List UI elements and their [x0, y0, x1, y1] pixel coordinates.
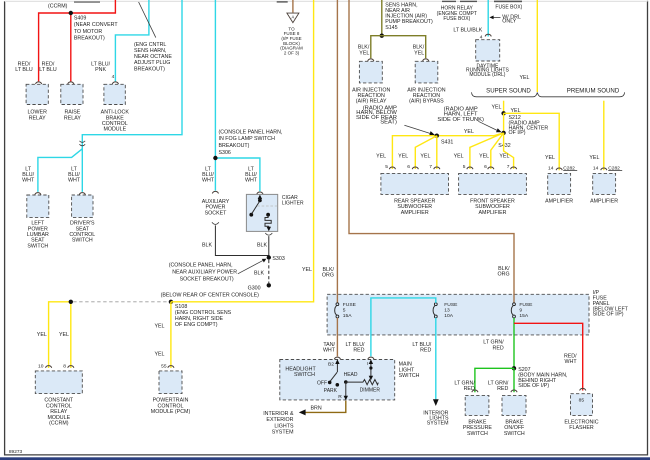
- svg-text:WHT: WHT: [68, 178, 81, 184]
- svg-text:BLK: BLK: [202, 243, 212, 249]
- svg-text:MODULE (PCM): MODULE (PCM): [151, 409, 191, 415]
- svg-text:(CONSOLE PANEL HARN,: (CONSOLE PANEL HARN,: [219, 129, 283, 135]
- svg-text:YEL: YEL: [420, 154, 430, 160]
- node S207: [512, 366, 516, 370]
- leader arrow to S303: [238, 260, 264, 274]
- contact HEAD: [344, 380, 348, 384]
- node S409: [69, 11, 73, 15]
- svg-text:7: 7: [429, 164, 432, 170]
- wire blk cigar to S303: [268, 236, 270, 255]
- ground G300: [267, 283, 271, 287]
- svg-text:SUPER SOUND: SUPER SOUND: [486, 87, 531, 94]
- svg-text:ADJUST PLUG: ADJUST PLUG: [134, 60, 170, 66]
- switch BRAKE PRESSURE SWITCH: [465, 395, 489, 415]
- wire olive branches to AIR relay and bypass: [371, 36, 426, 59]
- wire yellow S108 to PCM: [170, 302, 172, 368]
- pin connector lower relay: [36, 82, 42, 84]
- svg-text:YEL: YEL: [37, 332, 47, 338]
- svg-text:AMPLIFIER: AMPLIFIER: [479, 210, 507, 216]
- leader arrow to S432: [478, 121, 498, 131]
- svg-text:SYSTEM: SYSTEM: [427, 420, 449, 426]
- svg-text:SIDE OF I/P): SIDE OF I/P): [593, 312, 624, 318]
- wire tan to fuse 8 reference: [292, 0, 294, 13]
- svg-text:2 OF 3): 2 OF 3): [284, 50, 300, 55]
- svg-text:(CONSOLE PANEL HARN,: (CONSOLE PANEL HARN,: [169, 263, 233, 269]
- svg-text:5: 5: [343, 307, 346, 313]
- wire green fuse 9 output: [513, 318, 515, 369]
- pin connector amp1: [556, 168, 562, 170]
- wire cyan headlight I to fuse 13: [371, 298, 436, 357]
- svg-text:5: 5: [463, 164, 466, 170]
- node yellow splice: [69, 300, 73, 304]
- pin connector PCM: [168, 366, 174, 368]
- svg-text:RED: RED: [497, 386, 508, 392]
- svg-text:S303: S303: [272, 256, 284, 262]
- svg-text:SWITCH: SWITCH: [72, 238, 93, 244]
- svg-text:MODULE: MODULE: [103, 127, 126, 133]
- svg-text:YEL: YEL: [499, 154, 509, 160]
- switch S1 LEFT POWER LUMBAR SEAT SWITCH: [27, 195, 49, 217]
- bottom navy strip: [0, 457, 650, 460]
- wire yellow CCRM pin10 branch: [49, 302, 71, 368]
- svg-text:LIGHTER: LIGHTER: [282, 201, 304, 207]
- svg-text:TO MOTOR: TO MOTOR: [74, 29, 103, 35]
- relay AIR INJECTION REACTION RELAY: [359, 61, 382, 83]
- svg-text:NEAR OCTANE: NEAR OCTANE: [134, 54, 172, 60]
- pin connector air relay: [368, 59, 374, 61]
- svg-text:YEL: YEL: [464, 129, 474, 135]
- relay K1 LOWER RELAY: [26, 84, 48, 104]
- svg-text:SWITCH: SWITCH: [294, 372, 315, 378]
- svg-text:5: 5: [385, 164, 388, 170]
- switch HEADLIGHT SWITCH: [280, 360, 395, 400]
- svg-text:WHT: WHT: [22, 178, 35, 184]
- fuse F13 10A: [434, 303, 437, 306]
- svg-text:LT BLU: LT BLU: [39, 67, 57, 73]
- svg-text:YEL: YEL: [479, 154, 489, 160]
- fuse F9 15A: [513, 303, 516, 306]
- svg-text:PARK: PARK: [324, 388, 338, 394]
- leader arrow to S431: [404, 125, 431, 134]
- svg-text:ORG: ORG: [498, 272, 510, 278]
- wire red fuse 9 to flasher: [514, 323, 583, 390]
- headlight I arrow: [370, 364, 372, 377]
- svg-text:(AIR) BYPASS: (AIR) BYPASS: [409, 99, 444, 105]
- pin connector DRL: [485, 34, 491, 36]
- wire hop symbol: [79, 141, 85, 143]
- svg-text:LIGHTS: LIGHTS: [274, 423, 294, 429]
- wire cyan branch to lumbar switch: [38, 149, 82, 192]
- svg-text:SIDE OF I/P): SIDE OF I/P): [518, 383, 549, 389]
- pin connector headlight I: [368, 357, 374, 359]
- wire green S207 to brake on/off switch: [513, 368, 515, 392]
- svg-text:YEL: YEL: [302, 267, 312, 273]
- node S431: [435, 134, 439, 138]
- pin connector amp2: [601, 168, 607, 170]
- svg-text:AMPLIFIER: AMPLIFIER: [545, 198, 573, 204]
- svg-text:NEAR AUXILIARY POWER: NEAR AUXILIARY POWER: [172, 270, 237, 276]
- pin connector driver seat switch: [79, 193, 85, 195]
- svg-text:YEL: YEL: [398, 154, 408, 160]
- arrow to interior exterior lights: [299, 409, 306, 415]
- svg-text:(AIR) RELAY: (AIR) RELAY: [356, 99, 387, 105]
- svg-text:15A: 15A: [519, 313, 528, 319]
- svg-text:EXTERIOR: EXTERIOR: [266, 417, 293, 423]
- wire yellow S212 to amplifier 1: [504, 113, 560, 170]
- svg-text:SYSTEM: SYSTEM: [272, 430, 294, 436]
- svg-text:S432: S432: [498, 143, 510, 149]
- wire cyan fuse 13 to interior lights: [435, 318, 437, 400]
- svg-text:(ENG CNTRL: (ENG CNTRL: [134, 42, 166, 48]
- svg-text:SIDE OF TRUNK): SIDE OF TRUNK): [437, 117, 484, 123]
- arrow to interior lights system: [433, 399, 439, 406]
- svg-text:SWITCH: SWITCH: [399, 373, 420, 379]
- svg-text:S145: S145: [385, 25, 397, 31]
- relay K2 RAISE RELAY: [61, 84, 83, 104]
- svg-text:(BELOW REAR OF CENTER CONSOLE): (BELOW REAR OF CENTER CONSOLE): [161, 292, 260, 298]
- pin connector brake on/off: [511, 390, 517, 392]
- node S303: [267, 255, 271, 259]
- svg-text:RED: RED: [493, 345, 504, 351]
- svg-text:RED: RED: [464, 386, 475, 392]
- wire blk dashed S303 to G300: [268, 260, 270, 283]
- amplifier super sound AMPLIFIER: [548, 173, 571, 194]
- wire yellow rear amp pin 7: [436, 136, 438, 169]
- svg-text:I: I: [367, 361, 368, 367]
- cigar lighter inner dashed line: [257, 205, 277, 207]
- svg-text:IN FOG LAMP SWITCH: IN FOG LAMP SWITCH: [219, 136, 276, 142]
- solenoid AIR INJECTION REACTION BYPASS: [415, 61, 438, 83]
- cigar lighter input arrow: [258, 195, 262, 199]
- svg-text:FUSE: FUSE: [444, 302, 458, 308]
- wire yellow audio feed from top: [536, 0, 538, 92]
- svg-text:9: 9: [519, 307, 522, 313]
- wire yellow front amp pin 6: [491, 133, 504, 169]
- wire tan fuse 5 to headlight B2: [336, 318, 338, 357]
- svg-text:10: 10: [38, 363, 44, 369]
- svg-text:89273: 89273: [9, 449, 23, 455]
- svg-text:BREAKOUT): BREAKOUT): [134, 66, 165, 72]
- pin connector lumbar switch: [35, 193, 41, 195]
- svg-text:LT BLU/BLK: LT BLU/BLK: [453, 28, 482, 34]
- wire red S409 to raise relay: [70, 13, 72, 81]
- svg-text:BREAKOUT): BREAKOUT): [219, 143, 250, 149]
- headlight B2 arrow: [336, 364, 338, 373]
- svg-text:WHT: WHT: [323, 348, 336, 354]
- module U1 ANTI-LOCK BRAKE CONTROL MODULE: [104, 84, 125, 104]
- pin connector electronic flasher: [580, 388, 586, 390]
- module CCRM CONSTANT CONTROL RELAY MODULE: [35, 371, 82, 394]
- svg-text:B2: B2: [328, 361, 334, 367]
- svg-text:OF I/P): OF I/P): [509, 130, 526, 136]
- pin connector anti-lock module: [112, 82, 118, 84]
- svg-text:15A: 15A: [343, 313, 352, 319]
- fuse F5 15A: [336, 303, 339, 306]
- amplifier premium sound AMPLIFIER: [593, 173, 616, 194]
- svg-text:FUSE BOX): FUSE BOX): [443, 16, 470, 22]
- amplifier REAR SPEAKER SUBWOOFER: [381, 173, 449, 194]
- node S212: [501, 111, 505, 115]
- svg-text:G300: G300: [248, 286, 261, 292]
- svg-text:SENS HARN,: SENS HARN,: [134, 48, 166, 54]
- wire yellow premium stub to amp2: [603, 101, 605, 171]
- svg-text:FUSE BOX): FUSE BOX): [495, 4, 522, 10]
- svg-text:YEL: YEL: [511, 108, 521, 114]
- svg-text:PNK: PNK: [95, 67, 106, 73]
- svg-text:6: 6: [484, 164, 487, 170]
- node S432: [501, 131, 505, 135]
- pin connector brake pressure: [472, 390, 478, 392]
- svg-text:55: 55: [161, 363, 167, 369]
- wire green S207 to brake pressure switch: [475, 368, 514, 392]
- svg-text:S306: S306: [219, 150, 231, 156]
- pin connectors rear amp: [389, 167, 395, 169]
- wire olive S145 feed: [381, 0, 383, 36]
- component CIGAR LIGHTER: [246, 194, 277, 231]
- module PCM POWERTRAIN CONTROL MODULE: [159, 371, 182, 394]
- svg-text:YEL: YEL: [59, 332, 69, 338]
- svg-text:ONLY: ONLY: [502, 19, 516, 25]
- svg-text:OF ENG COMPT): OF ENG COMPT): [175, 322, 218, 328]
- wire yellow rear amp pin 6: [415, 136, 437, 169]
- wire blk aux socket to S303: [215, 225, 268, 255]
- contact PARK: [336, 383, 340, 387]
- node S145: [380, 34, 384, 38]
- svg-text:YEL: YEL: [545, 155, 555, 161]
- wire yellow front amp pin 7: [504, 133, 514, 169]
- wire yellow bus from top to S108: [171, 0, 314, 302]
- svg-text:SOCKET: SOCKET: [205, 210, 228, 216]
- pin connectors front amp: [467, 167, 473, 169]
- system brace: [472, 92, 625, 97]
- svg-text:8: 8: [63, 363, 66, 369]
- svg-text:AMPLIFIER: AMPLIFIER: [401, 210, 429, 216]
- svg-text:MODULE (DRL): MODULE (DRL): [469, 72, 505, 78]
- pin connector CCRM 8: [68, 366, 74, 368]
- fuse panel I/P FUSE PANEL: [327, 294, 589, 335]
- cigar lighter output arrow: [268, 226, 270, 228]
- headlight lever B2-OFF: [330, 372, 337, 381]
- svg-text:14: 14: [593, 165, 599, 171]
- dimmer rheostat: [346, 380, 379, 385]
- svg-text:SWITCH: SWITCH: [467, 431, 488, 437]
- flasher ELECTRONIC FLASHER: [571, 394, 593, 416]
- note W/ DRL ONLY: [492, 16, 500, 18]
- svg-text:(CCRM): (CCRM): [49, 421, 69, 427]
- svg-text:85: 85: [579, 397, 585, 403]
- socket cup symbol: [212, 222, 219, 224]
- wire cyan from top to anti-lock module: [115, 0, 148, 81]
- svg-text:7: 7: [507, 164, 510, 170]
- svg-text:SWITCH: SWITCH: [27, 243, 48, 249]
- svg-text:YEL: YEL: [359, 50, 369, 56]
- svg-text:WHT: WHT: [245, 178, 258, 184]
- svg-text:YEL: YEL: [154, 323, 164, 329]
- pin connector air bypass: [423, 59, 429, 61]
- pin connector CCRM 10: [46, 366, 52, 368]
- svg-text:BREAKOUT): BREAKOUT): [74, 36, 105, 42]
- svg-text:WHT: WHT: [202, 178, 215, 184]
- svg-text:ORG: ORG: [322, 273, 334, 279]
- svg-text:13: 13: [444, 307, 450, 313]
- svg-text:RED: RED: [353, 348, 364, 354]
- svg-text:FLASHER: FLASHER: [569, 425, 594, 431]
- node S108: [169, 300, 173, 304]
- svg-text:S431: S431: [441, 140, 453, 146]
- pin connector cigar lighter top: [257, 192, 263, 194]
- svg-text:DIMMER: DIMMER: [360, 387, 381, 393]
- wire cyan branch to cigar lighter: [215, 158, 260, 191]
- svg-text:PREMIUM SOUND: PREMIUM SOUND: [567, 87, 620, 94]
- svg-text:FUSE: FUSE: [343, 302, 357, 308]
- amplifier FRONT SPEAKER SUBWOOFER: [459, 173, 527, 194]
- off-page triangle TO FUSE 8: [287, 13, 299, 23]
- svg-text:BLK: BLK: [254, 271, 264, 277]
- wire yellow front amp pin 5: [470, 133, 504, 169]
- switch BRAKE ON/OFF SWITCH: [502, 395, 526, 415]
- svg-text:LT BLU: LT BLU: [15, 67, 33, 73]
- svg-text:BRN: BRN: [311, 405, 322, 411]
- wire yellow rear amp bus: [392, 133, 503, 169]
- svg-text:(CCRM): (CCRM): [48, 3, 68, 9]
- pin connector headlight B2: [334, 357, 340, 359]
- svg-text:HEAD: HEAD: [344, 372, 358, 378]
- pin connector raise relay: [68, 82, 74, 84]
- svg-text:SOCKET BREAKOUT): SOCKET BREAKOUT): [180, 277, 234, 283]
- svg-text:INTERIOR &: INTERIOR &: [263, 411, 294, 417]
- svg-text:S409: S409: [74, 16, 86, 22]
- wire cyan console feed to aux socket: [214, 0, 216, 191]
- module DRL DAYTIME RUNNING LIGHTS: [476, 40, 500, 61]
- cut text marks top edge: [74, 1, 100, 3]
- svg-text:YEL: YEL: [454, 154, 464, 160]
- svg-text:YEL: YEL: [491, 104, 501, 110]
- wire cyan DRL feed: [487, 0, 489, 37]
- svg-text:SWITCH: SWITCH: [504, 431, 525, 437]
- svg-text:OFF: OFF: [317, 380, 327, 386]
- svg-text:YEL: YEL: [154, 351, 164, 357]
- wire yellow super sound stub to S212: [503, 101, 505, 114]
- svg-text:R: R: [338, 394, 342, 400]
- svg-text:SEAT): SEAT): [380, 120, 397, 126]
- cigar lighter bottom cup: [265, 233, 272, 235]
- wire brn headlight R to lights system: [305, 401, 346, 413]
- svg-text:YEL: YEL: [519, 75, 529, 81]
- svg-text:RELAY: RELAY: [29, 115, 46, 121]
- cigar lighter heating element: [266, 213, 270, 217]
- svg-text:YEL: YEL: [414, 50, 424, 56]
- leader line to eng cntrl note: [139, 2, 156, 38]
- cigar lighter contact lever: [258, 199, 262, 203]
- svg-text:FUSE: FUSE: [519, 302, 533, 308]
- svg-text:14: 14: [548, 165, 554, 171]
- pin connector aux power socket: [212, 191, 218, 193]
- wire cyan seat feed from top: [82, 0, 182, 192]
- svg-text:YEL: YEL: [589, 155, 599, 161]
- svg-text:6: 6: [407, 164, 410, 170]
- svg-text:YEL: YEL: [376, 154, 386, 160]
- wire red from top to S409: [39, 0, 116, 81]
- svg-text:A: A: [292, 15, 295, 20]
- node S306: [213, 156, 217, 160]
- wire dashed splice link: [73, 301, 168, 303]
- wire yellow S212 to S432: [503, 113, 505, 133]
- wire tan feed to fuse 5: [336, 0, 338, 303]
- wire yellow CCRM pin8 branch: [70, 302, 72, 368]
- wire tan feed to fuse 9: [349, 0, 514, 303]
- svg-text:RELAY: RELAY: [64, 115, 81, 121]
- svg-text:10A: 10A: [444, 313, 453, 319]
- headlight R output: [345, 382, 347, 396]
- svg-text:RED: RED: [420, 348, 431, 354]
- svg-text:WHT: WHT: [565, 359, 578, 365]
- switch S2 DRIVER'S SEAT CONTROL SWITCH: [72, 195, 93, 217]
- svg-text:AMPLIFIER: AMPLIFIER: [590, 198, 618, 204]
- svg-text:4: 4: [112, 74, 115, 80]
- svg-text:(NEAR CONVERT: (NEAR CONVERT: [74, 22, 119, 28]
- svg-text:BLK: BLK: [257, 243, 267, 249]
